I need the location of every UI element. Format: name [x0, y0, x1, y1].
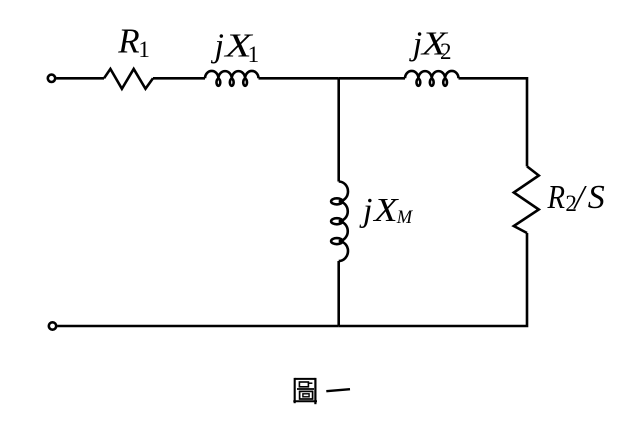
svg-text:1: 1	[248, 42, 260, 67]
wire: node A to jX2	[339, 77, 405, 80]
terminal T1 (top-left input)	[48, 75, 55, 82]
label jX1	[211, 28, 260, 68]
wire: R1 to jX1	[153, 77, 205, 80]
wire bottom: terminal to node B	[57, 325, 339, 328]
inductor jX2	[405, 71, 459, 86]
svg-text:R: R	[117, 22, 139, 61]
terminal T2 (bottom-left)	[49, 322, 56, 329]
caption character 一 (one)	[326, 389, 350, 391]
inductor jXM	[331, 182, 348, 262]
svg-text:R: R	[547, 179, 566, 216]
svg-text:S: S	[588, 179, 605, 216]
svg-text:M: M	[396, 208, 414, 228]
label R1	[117, 22, 150, 63]
wire: R2/S to bottom-right corner	[339, 233, 527, 326]
wire top-left: terminal to R1	[56, 77, 104, 80]
wire: jX1 to node A (top junction)	[259, 77, 339, 80]
label jXM	[359, 192, 414, 229]
wire: jX2 to top-right corner	[459, 78, 528, 166]
wire: node A down to jXM	[337, 78, 340, 181]
label R2/S	[547, 179, 605, 216]
resistor R2/S	[514, 166, 539, 233]
svg-text:1: 1	[138, 37, 150, 62]
svg-text:2: 2	[440, 39, 452, 64]
inductor jX1	[205, 71, 259, 86]
svg-text:X: X	[372, 192, 399, 229]
wire: jXM down to bottom node B	[337, 261, 340, 326]
resistor R1	[104, 69, 153, 89]
caption character 圖 (figure)	[293, 378, 317, 404]
label jX2	[409, 26, 452, 65]
